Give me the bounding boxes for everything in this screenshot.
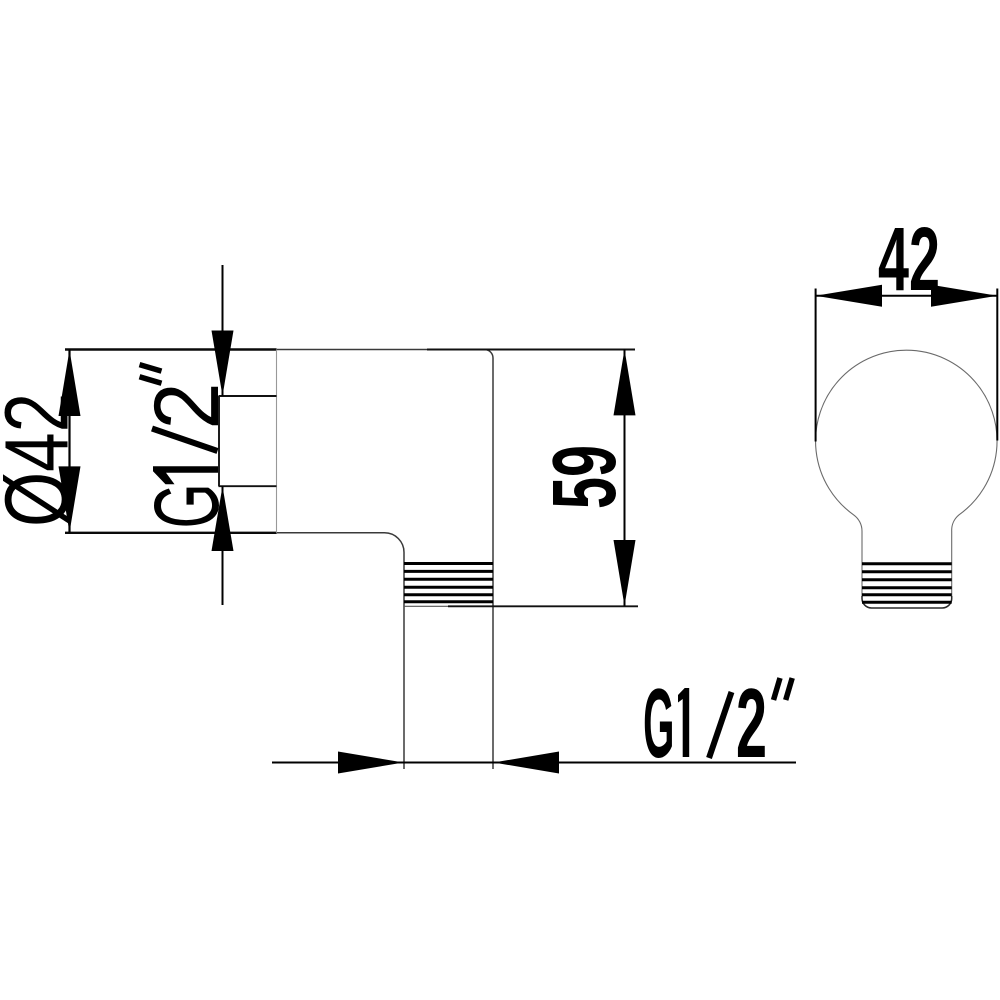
svg-text:G: G — [136, 483, 238, 528]
dimension G1/2 hole: upper dim line — [222, 265, 224, 396]
tapped hole depth line — [218, 396, 220, 486]
dimension G1/2 hole: up arrow — [212, 486, 234, 551]
dimension 42: left arrow — [816, 285, 882, 307]
svg-text:Ø42: Ø42 — [0, 393, 88, 527]
dimension G1/2 bottom: dim line — [272, 762, 796, 764]
dimension G1/2 hole: down arrow — [212, 331, 234, 397]
svg-text:2: 2 — [736, 668, 767, 778]
spigot bottom cap (right view) — [862, 596, 952, 608]
svg-text:59: 59 — [535, 445, 635, 509]
dimension Ø42 line (doubles as flange left edge) — [68, 350, 70, 533]
dimension G1/2 bottom: left-pointing arrow — [494, 752, 560, 774]
thread lines on spigot (right view) — [862, 564, 952, 602]
dimension G1/2 bottom: right-pointing arrow — [338, 752, 404, 774]
dimension G1/2 hole slash — [152, 429, 218, 452]
thread end line (left view) — [404, 605, 493, 607]
dimension 42: right arrow — [931, 285, 997, 307]
svg-text:42: 42 — [878, 210, 940, 310]
dimension 42: right extension line — [996, 289, 998, 441]
flange top edge (thick) — [65, 348, 277, 350]
dimension 59: dim line — [624, 349, 626, 606]
dimension Ø42 top arrow — [59, 350, 81, 416]
dimension 59: top extension line — [427, 349, 635, 351]
dimension 59: bottom extension line — [448, 605, 638, 607]
thread lines on pipe (left view) — [404, 564, 493, 602]
tapped hole G1/2 bottom line — [219, 485, 277, 487]
dimension 59: bottom arrow — [614, 540, 636, 606]
right view silhouette (escutcheon circle + neck + threaded spigot) — [816, 350, 998, 608]
barrel top edge + corner + right/pipe edge (thin) — [277, 350, 494, 770]
dimension 42: dim line — [816, 295, 998, 297]
svg-text:G: G — [643, 668, 674, 778]
dimension G1/2 hole double prime — [140, 377, 162, 384]
dimension Ø42 bottom arrow — [59, 466, 81, 532]
dimension G1/2 hole: lower dim line — [222, 486, 224, 605]
flange face line — [276, 350, 278, 533]
flange bottom edge (thick) — [65, 532, 277, 534]
dimension 42: left extension line — [815, 289, 817, 442]
dimension G1/2 bottom double prime — [774, 678, 781, 700]
dimension G1/2 bottom slash — [709, 692, 732, 758]
tapped hole G1/2 top line — [219, 395, 277, 397]
svg-text:2: 2 — [136, 383, 238, 430]
barrel bottom edge + fillet + pipe left edge (thin) — [277, 533, 405, 769]
dimension 59: top arrow — [614, 349, 636, 415]
